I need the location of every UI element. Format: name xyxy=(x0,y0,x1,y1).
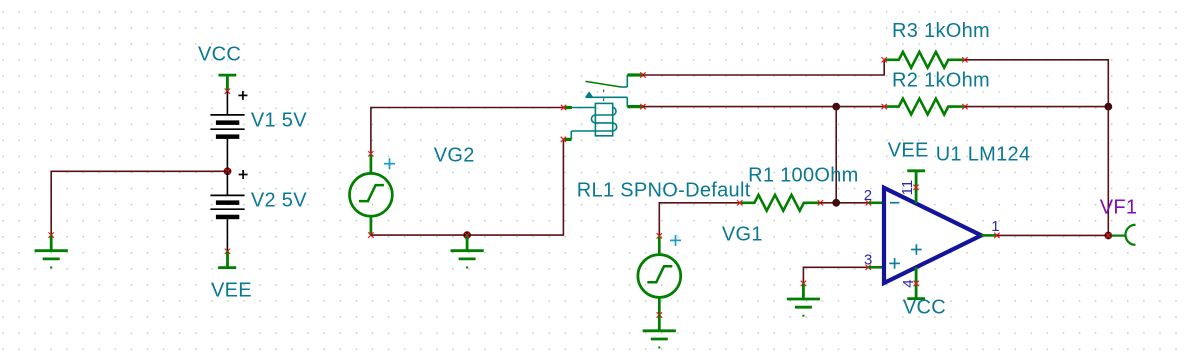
terminal x relay coil left xyxy=(561,105,566,110)
terminal x pin3 ground xyxy=(801,281,806,286)
plus mark V1 xyxy=(238,91,247,100)
op-amp U1 triangle xyxy=(884,188,981,283)
op-amp plus sign input xyxy=(889,258,900,269)
relay switch top stub xyxy=(627,73,643,76)
plus mark VG2 xyxy=(384,158,395,169)
svg-text:V1 5V: V1 5V xyxy=(251,110,307,132)
svg-text:VCC: VCC xyxy=(198,43,241,65)
power symbol op-amp VEE pin 11 xyxy=(907,171,925,204)
terminal x R3 left xyxy=(882,57,887,62)
op-amp plus sign middle xyxy=(911,244,922,255)
svg-text:R2 1kOhm: R2 1kOhm xyxy=(892,70,990,92)
wire VG2 minus to relay coil bottom xyxy=(371,139,564,235)
wire relay common to R2 xyxy=(643,106,884,108)
svg-text:11: 11 xyxy=(899,180,916,196)
wire R2 right to feedback column xyxy=(965,106,1108,108)
wire output to VF1 xyxy=(997,234,1108,236)
relay coil left stub xyxy=(564,106,572,109)
svg-text:3: 3 xyxy=(864,251,872,268)
terminal x R3 right xyxy=(962,57,967,62)
svg-text:VEE: VEE xyxy=(211,280,252,302)
relay RL1 coil xyxy=(571,103,616,139)
power symbol op-amp VCC pin 4 xyxy=(907,267,925,298)
wire R1 to inverting input xyxy=(820,202,868,204)
ground VG1 xyxy=(643,315,676,348)
svg-text:VCC: VCC xyxy=(903,297,946,319)
voltage probe VF1 xyxy=(1111,225,1136,245)
junction node feedback top xyxy=(1104,103,1112,111)
plus mark VG1 xyxy=(670,235,681,246)
junction node at middle ground xyxy=(463,231,471,239)
junction node between V1 and V2 xyxy=(224,167,232,175)
terminal x R1 left xyxy=(737,200,742,205)
terminal x R2 right xyxy=(962,104,967,109)
relay coil bottom stub xyxy=(563,138,571,141)
relay switch common stub xyxy=(627,105,643,108)
plus mark V2 xyxy=(239,170,248,179)
pin stub op-amp pin 3 xyxy=(868,266,884,269)
relay dashed link xyxy=(603,90,605,104)
wire junction down to inverting input xyxy=(835,107,837,203)
svg-text:U1 LM124: U1 LM124 xyxy=(936,143,1031,165)
op-amp minus sign xyxy=(890,202,899,204)
junction node VF1 xyxy=(1104,232,1112,240)
svg-text:VF1: VF1 xyxy=(1100,197,1138,219)
source VG2 xyxy=(350,155,393,236)
wire relay top contact to R3 xyxy=(643,60,884,75)
svg-text:VG1: VG1 xyxy=(722,223,763,245)
resistor R3 xyxy=(884,52,965,68)
terminal x VG1 bottom xyxy=(657,312,662,317)
svg-text:2: 2 xyxy=(864,187,872,204)
svg-text:VG2: VG2 xyxy=(434,144,475,166)
power symbol VCC xyxy=(219,75,237,91)
ground middle xyxy=(451,235,484,268)
wire feedback column down to output xyxy=(1107,107,1109,236)
terminal x V2 bottom xyxy=(225,249,230,254)
ground left xyxy=(35,235,68,268)
wire from V1/V2 junction to left ground xyxy=(51,171,227,235)
battery V2 xyxy=(210,171,244,251)
terminal x V1 top xyxy=(225,89,230,94)
terminal x pin 11 xyxy=(913,185,918,190)
terminal x VG1 top xyxy=(657,233,662,238)
junction node R2 input xyxy=(832,103,840,111)
resistor R1 xyxy=(740,195,821,211)
terminal x R2 left xyxy=(882,104,887,109)
resistor R2 xyxy=(884,99,965,115)
svg-text:4: 4 xyxy=(900,279,917,287)
ground op-amp pin 3 xyxy=(787,283,820,316)
svg-text:RL1 SPNO-Default: RL1 SPNO-Default xyxy=(577,180,751,202)
svg-text:1: 1 xyxy=(991,218,999,235)
power symbol VEE xyxy=(218,251,236,267)
source VG1 xyxy=(638,237,681,316)
svg-text:R1 100Ohm: R1 100Ohm xyxy=(748,164,859,186)
terminal x left ground xyxy=(49,232,54,237)
terminal x op-amp pin 3 xyxy=(866,265,871,270)
svg-text:R3 1kOhm: R3 1kOhm xyxy=(892,20,990,42)
pin stub op-amp output pin 1 xyxy=(981,234,997,237)
terminal x VG2 bottom xyxy=(368,232,373,237)
terminal x pin 4 xyxy=(914,281,919,286)
svg-text:V2 5V: V2 5V xyxy=(251,190,307,212)
terminal x VG2 top xyxy=(368,151,373,156)
wire VG1 to R1 xyxy=(659,203,740,236)
terminal x R1 right xyxy=(818,200,823,205)
wire VG2 plus to relay coil xyxy=(371,108,564,154)
terminal x op-amp pin 2 xyxy=(866,200,871,205)
terminal x relay switch top xyxy=(640,72,645,77)
terminal x relay coil bottom xyxy=(561,137,566,142)
pin stub op-amp pin 2 xyxy=(868,202,884,205)
wire R3 to feedback column xyxy=(965,60,1108,107)
relay RL1 switch xyxy=(585,75,627,107)
terminal x relay switch common xyxy=(640,104,645,109)
wire pin3 ground to op-amp xyxy=(803,267,868,283)
battery V1 xyxy=(210,91,244,171)
svg-text:VEE: VEE xyxy=(888,139,929,161)
junction node inverting input xyxy=(832,199,840,207)
terminal x pin 1 xyxy=(994,233,999,238)
